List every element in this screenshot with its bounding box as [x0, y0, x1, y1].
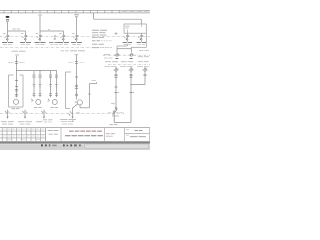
wire x40 from strip down [39, 16, 41, 31]
dash-dot linkage line y47.5 [0, 47, 108, 49]
contact marks group 1 b [39, 84, 42, 86]
small text right of goalposts y55 [104, 53, 110, 56]
relay K1 pin wire x141.3 [140, 33, 142, 35]
dash-dot linkage line y55 [103, 54, 150, 56]
junction bar x76.5 y16.8 [75, 15, 78, 18]
wire gauge text 4.5 center [74, 53, 78, 56]
junction dot x16.5 y70.6 [16, 70, 17, 71]
wire from battery down [7, 22, 9, 31]
connector pins group 2 [49, 93, 52, 95]
note row with dashes y47.5 [92, 46, 112, 49]
contact marks group 1 a [33, 84, 36, 86]
ground symbol motor [69, 111, 81, 119]
dash-dot ground bus y113.5 [0, 113, 124, 115]
switch contact S1 x7.5 [7, 35, 8, 36]
right edge text rows [138, 50, 149, 57]
wire stub x7.5 down to switch [7, 31, 9, 35]
stub above contact R2 [130, 67, 132, 69]
lamp contact L2 x131.3 y55 [130, 54, 132, 56]
enclosure box center left edge [66, 72, 72, 109]
fuse on wire b group 2 [55, 75, 57, 78]
ground tick left of lamp group 1 [31, 99, 33, 101]
node label above x76.5 [74, 13, 79, 16]
text under SW2 [112, 115, 119, 118]
label under lamp group 1 [34, 106, 37, 109]
label under R2 [129, 74, 132, 77]
wire B x131 down [130, 71, 132, 122]
connector on left wire y62.5 [9, 62, 25, 64]
motor return wire loop [80, 80, 97, 108]
contact S6 label [71, 42, 76, 43]
taskbar icon 9 [79, 144, 81, 146]
note row y44 [92, 43, 98, 46]
wire stub x25.5 down to switch [25, 31, 27, 35]
lamp circle group 2 [52, 100, 57, 105]
relay K1 coil pin stubs inside [126, 30, 128, 34]
contact K1b label [137, 42, 141, 43]
wire goalpost top y48.7 [117, 48, 131, 50]
dash-dot linkage line y36.5 [0, 36, 150, 38]
stub above contact R3 [144, 67, 146, 69]
label under R3 [143, 74, 146, 77]
wire below K1a [126, 40, 128, 42]
fuse on wire a group 2 [49, 75, 51, 78]
switch contact S2 x25.5 [25, 35, 26, 36]
wire from motor to ground [73, 104, 78, 116]
wire below S1 [7, 40, 9, 42]
fuse F1 main [6, 19, 9, 21]
wire K1a to goalpost left [117, 44, 127, 49]
label under R1 [114, 74, 117, 77]
wire below S6 [76, 40, 78, 42]
text under U corner [110, 123, 114, 126]
lamp circle group 1 [36, 100, 41, 105]
wire C to B horizontal y84.6 [131, 84, 145, 86]
note row with dashes y40.5 [92, 39, 112, 42]
lamp group 2 wire b [56, 71, 58, 98]
wire goalpost right drop [130, 49, 132, 53]
taskbar icon 8 [74, 144, 77, 146]
dash-dot linkage line y64.5 [108, 64, 150, 66]
wire x40 down to contact [39, 31, 41, 35]
taskbar icon 6 [67, 144, 69, 146]
tick below motor ground [72, 120, 74, 122]
ground stub G2 x25 [24, 110, 26, 117]
wire A pin tick y92.5 [115, 92, 118, 94]
wire drop into relay box [140, 19, 142, 24]
taskbar icon 7 [70, 144, 72, 146]
taskbar icon 2 [45, 144, 47, 146]
wire B pin tick y77 [130, 76, 133, 78]
wire x93.5 from strip [93, 13, 95, 19]
branch bus y70.6 to middle lamps [17, 70, 58, 72]
junction B-C y84.6 [130, 84, 131, 85]
left wire code text white/negro [12, 50, 19, 53]
left main wire x16.5 [16, 56, 18, 98]
wire horizontal y31 to x63.5 [40, 30, 64, 32]
taskbar icon 4 wide [52, 145, 56, 147]
label under S4 [49, 42, 54, 43]
text block bottom left 1 [1, 121, 14, 124]
connector pins x76.5 y94-96 [75, 94, 78, 96]
contact K1a label [123, 42, 127, 43]
wire x76.5 from top [76, 17, 78, 35]
switch contact S6 x76.5 [76, 35, 77, 36]
label under lamp LP1 [12, 107, 16, 110]
fuse on wire b group 1 [39, 75, 41, 78]
contact S2 label [20, 42, 25, 43]
relay K1 internal text [125, 25, 130, 28]
pin tick x76.5 y77 [75, 76, 78, 78]
wire B pin tick y92.5 [130, 92, 133, 94]
ground tick left of lamp group 2 [48, 99, 50, 101]
contact S1 label [2, 42, 7, 43]
small text y58 right column [104, 57, 108, 60]
taskbar icon 5 [63, 144, 65, 146]
relay K1 box [124, 24, 146, 33]
lamp group 1 wire a [33, 71, 35, 98]
page bottom edge line [0, 142, 150, 144]
wire x76.5 main down segment [76, 55, 78, 100]
connector pins x76.5 y85-88 [75, 85, 78, 88]
label under lamp group 2 [51, 106, 54, 109]
motor M1 inlet [75, 101, 77, 103]
wire C x145 down [144, 71, 146, 84]
relay contact K1b x141.3 [141, 35, 142, 36]
text row 2 under goalposts [105, 65, 111, 68]
contact marks group 2 a [49, 84, 52, 86]
wire below S5 [63, 40, 65, 42]
lamp group 2 wire a [50, 71, 52, 98]
wire below K1b [140, 40, 142, 42]
wire right edge to goalpost right [131, 47, 146, 48]
wire x63.5 down to contact [63, 31, 65, 35]
connector pins left wire y94-96 [15, 94, 18, 96]
wire goalpost left drop [116, 49, 118, 53]
wire A x116 down [115, 71, 117, 107]
relay contact K1a x127.3 [127, 35, 128, 36]
top reference strip (grid cells) [0, 10, 150, 13]
left wire code 4.5 [15, 54, 19, 57]
motor M1 circle [77, 100, 82, 105]
wire horizontal y19.2 to relay [94, 18, 142, 20]
wire horizontal bus y31 left pair [8, 30, 26, 32]
wire code text above x76 wire [70, 49, 77, 52]
title block left grid [0, 128, 45, 142]
title block prohibida cell [65, 128, 105, 142]
ground stub G3 x44 [43, 110, 45, 117]
wire A pin tick y77 [115, 76, 118, 78]
contact S3 label [35, 42, 40, 43]
relay K1 pin wire x127.3 [126, 33, 128, 35]
contact R2 x131 y70 [130, 69, 132, 71]
lamp contact L1 x117 y55 [116, 54, 118, 56]
taskbar icon 1 [41, 144, 43, 146]
connector pins group 1 [33, 93, 36, 95]
contact marks group 2 b [55, 84, 58, 86]
fuse on wire a group 1 [33, 75, 35, 78]
connector on center wire y62.5 [69, 62, 85, 64]
switch SW2 on wire A [109, 103, 124, 114]
text block bottom mid 1 [43, 119, 53, 122]
text block bottom left 2 [18, 121, 32, 124]
wire relay box right edge drop [145, 33, 147, 47]
wire A pin tick y87 [115, 86, 118, 88]
label under L2 [130, 57, 133, 60]
wire U bottom y122.4 [114, 121, 131, 123]
title block model box [125, 128, 150, 142]
label under L1 [115, 57, 118, 60]
contact R3 x145 y70 [144, 69, 146, 71]
junction dot x40 y70.6 [39, 70, 40, 71]
text block bottom mid 2 [60, 119, 76, 124]
stub above contact R1 [115, 67, 117, 69]
wire code text clarinete y51 [61, 49, 65, 52]
pin tick left wire y80.5 [15, 80, 18, 82]
connector pins left wire y89-91 [15, 89, 18, 91]
title block outer frame [0, 128, 150, 142]
taskbar icon 3 [49, 144, 51, 146]
text block bottom left 3 [36, 120, 43, 123]
title block small cell [106, 133, 115, 136]
battery terminal B+ [6, 16, 10, 18]
text row under goalposts [105, 60, 111, 63]
lamp group 1 wire b [39, 71, 41, 98]
wire below S3 [39, 40, 41, 42]
switch contact S5 x63.5 [63, 35, 64, 36]
tick above y31 wire [48, 28, 50, 31]
wire label above y31 bus [13, 28, 16, 31]
node label above x40 [38, 14, 42, 17]
taskbar slider track [85, 144, 149, 148]
note text block rows x92 [92, 30, 107, 38]
contact S5 label [58, 42, 63, 43]
pin tick left wire y86.5 [15, 86, 18, 88]
wire below S2 [25, 40, 27, 42]
wire A lower segment [113, 110, 115, 122]
plus tick right x115 y33 [115, 32, 118, 35]
contact R1 x116 y70 [115, 69, 117, 71]
title block cell seguridad [45, 128, 61, 142]
enclosure box around lamp LP1 [9, 75, 24, 107]
taskbar background [0, 143, 150, 150]
switch contact S3 x40 [39, 35, 40, 36]
ground stub G1 x7.5 [7, 110, 9, 117]
faint contact S4 x55 on linkage line [54, 35, 56, 39]
lamp LP1 circle [13, 99, 18, 104]
